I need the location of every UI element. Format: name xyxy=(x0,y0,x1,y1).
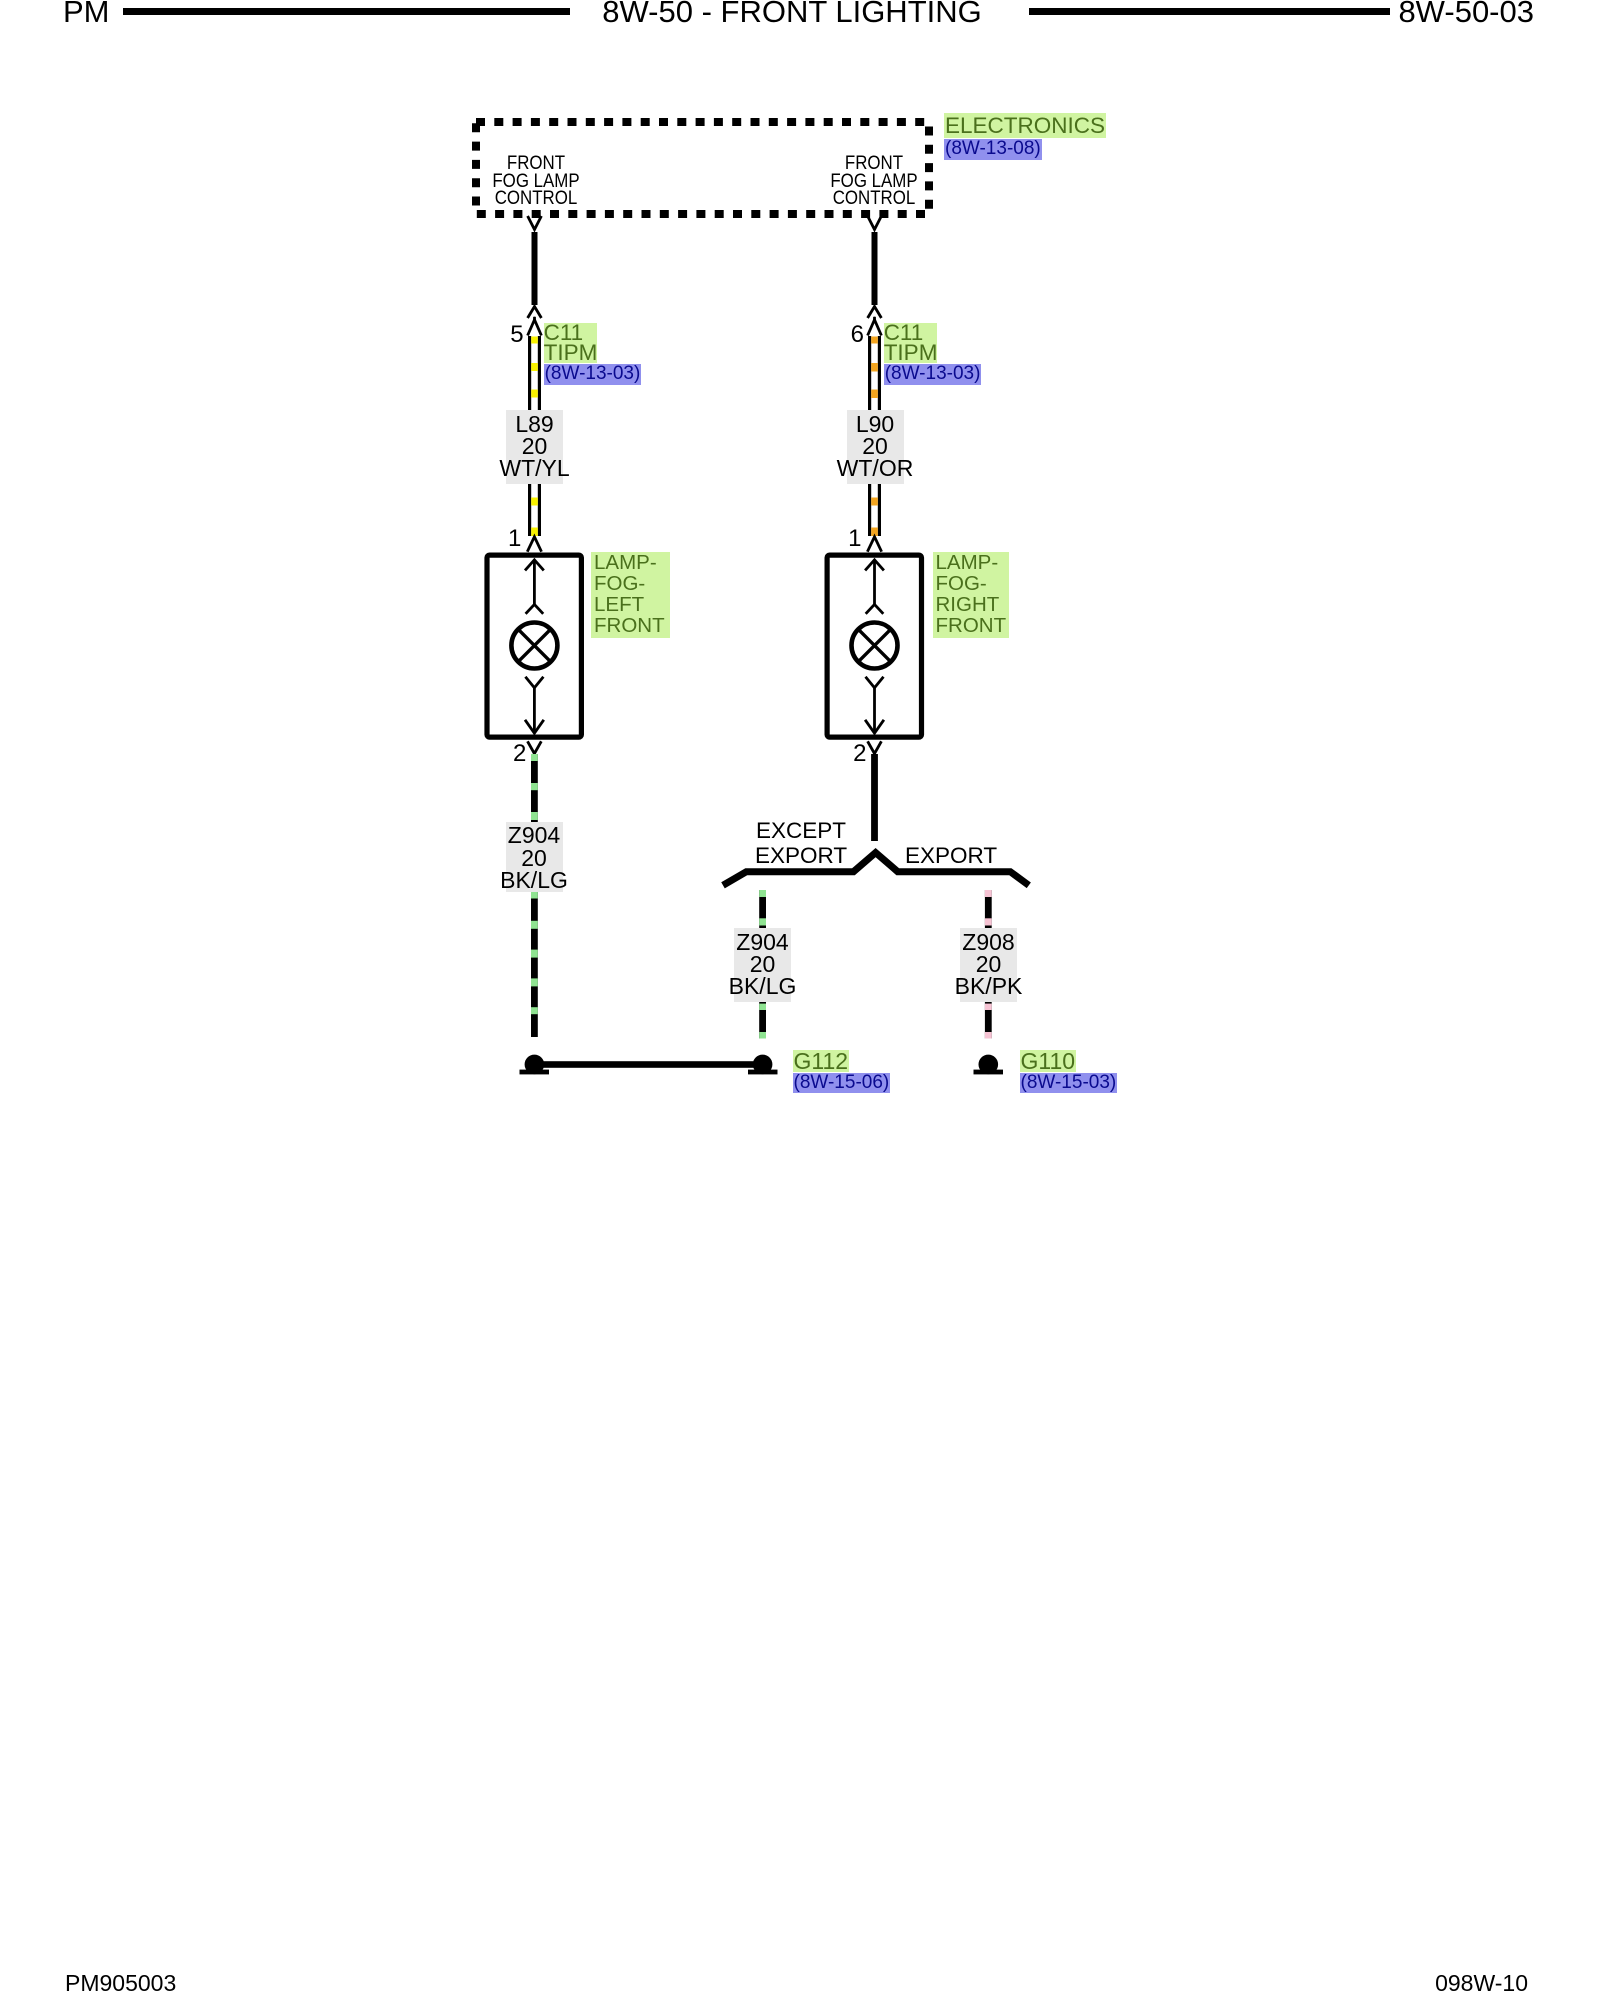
wire Z904 20 BK/LG segment A (below left lamp) xyxy=(531,754,538,822)
pin number 5 xyxy=(484,323,524,346)
lamp housing box left xyxy=(487,555,581,737)
connector chevron into left lamp pin 1 xyxy=(527,537,541,552)
wire L90 20 WT/OR upper segment xyxy=(868,336,881,410)
label: connector C11 TIPM (left) xyxy=(544,323,598,363)
lamp right terminal arrow (pin 1 side) xyxy=(865,560,884,605)
wire L90 20 WT/OR lower segment xyxy=(868,484,881,536)
wire label L90 20 WT/OR xyxy=(847,410,904,484)
reference: (8W-13-03) left xyxy=(544,364,642,385)
lamp right terminal V and stem (pin 2 side) xyxy=(866,677,884,732)
pin number 2 (right lamp) xyxy=(827,742,867,765)
lamp housing box right xyxy=(827,555,921,737)
connector chevron into right lamp pin 1 xyxy=(867,537,881,552)
lamp left terminal fork xyxy=(526,604,544,613)
label: EXCEPT EXPORT xyxy=(755,819,847,868)
wire Z908 20 BK/PK segment (export) xyxy=(985,890,992,1039)
wire label Z904 20 BK/LG (middle) xyxy=(734,928,791,1002)
dashed module box: front fog lamp control (electronics) xyxy=(476,122,929,214)
label: connector C11 TIPM (right) xyxy=(884,323,938,363)
wire L89 20 WT/YL upper segment xyxy=(528,336,541,410)
bulb symbol left xyxy=(511,623,557,669)
ground bus wire between G112 legs xyxy=(534,1061,763,1068)
lamp left terminal arrow (pin 1 side) xyxy=(525,560,544,605)
label: front fog lamp control (right) xyxy=(812,155,935,207)
header rule right xyxy=(1029,8,1390,15)
in-line connector C11 right (double chevron) xyxy=(868,307,882,336)
wire: right lamp pin 2 to splice xyxy=(871,754,878,841)
label: ground G112 xyxy=(793,1050,850,1072)
reference: (8W-13-08) xyxy=(944,139,1042,160)
label: ELECTRONICS xyxy=(944,113,1106,138)
splice split: except export / export xyxy=(723,853,1029,886)
wire label Z908 20 BK/PK xyxy=(960,928,1017,1002)
pin number 1 (right lamp) xyxy=(822,527,862,550)
pin number 2 (left lamp) xyxy=(486,742,526,765)
header: page code 8W-50-03 xyxy=(1334,0,1534,27)
label: EXPORT xyxy=(905,844,997,868)
footer: drawing number PM905003 xyxy=(65,1972,176,1995)
lamp left terminal V and stem (pin 2 side) xyxy=(525,677,543,732)
label: ground G110 xyxy=(1020,1050,1077,1072)
wire label L89 20 WT/YL xyxy=(506,410,563,484)
footer: sheet code 098W-10 xyxy=(1328,1972,1528,1995)
in-line connector C11 left (double chevron) xyxy=(528,307,542,336)
connector chevron at right lamp pin 2 xyxy=(868,741,882,753)
label: front fog lamp control (left) xyxy=(474,155,597,207)
lamp right terminal arrow down (pin 2 side) xyxy=(865,720,884,733)
pin number 6 xyxy=(824,323,864,346)
wire Z904 20 BK/LG segment B (to ground G112) xyxy=(531,891,538,1037)
reference: (8W-13-03) right xyxy=(884,364,982,385)
label: LAMP-FOG-RIGHT FRONT xyxy=(933,552,1009,638)
wire L89 20 WT/YL lower segment xyxy=(528,484,541,536)
wire Z904 20 BK/LG middle segment (except export) xyxy=(759,890,766,1039)
label: LAMP-FOG-LEFT FRONT xyxy=(591,552,670,638)
pin number 1 (left lamp) xyxy=(481,527,521,550)
wire label Z904 20 BK/LG (left) xyxy=(506,822,563,892)
connector chevron: FFL control left output xyxy=(528,216,542,230)
reference: (8W-15-06) xyxy=(793,1073,891,1094)
wire: FFL control right to C11 pin 6 xyxy=(872,232,878,305)
header: manual code PM xyxy=(63,0,110,27)
ground symbol left leg of G112 xyxy=(520,1055,550,1075)
lamp left terminal arrow down (pin 2 side) xyxy=(525,720,544,733)
ground G110 xyxy=(974,1055,1004,1075)
ground G112 splice dot xyxy=(748,1055,778,1075)
connector chevron: FFL control right output xyxy=(868,216,882,230)
bulb symbol right xyxy=(852,623,898,669)
header rule left xyxy=(123,8,570,15)
header: title 8W-50 - FRONT LIGHTING xyxy=(602,0,982,27)
lamp right terminal fork xyxy=(866,604,884,613)
wire: FFL control left to C11 pin 5 xyxy=(532,232,538,305)
reference: (8W-15-03) xyxy=(1020,1073,1118,1094)
connector chevron at left lamp pin 2 xyxy=(528,741,542,753)
